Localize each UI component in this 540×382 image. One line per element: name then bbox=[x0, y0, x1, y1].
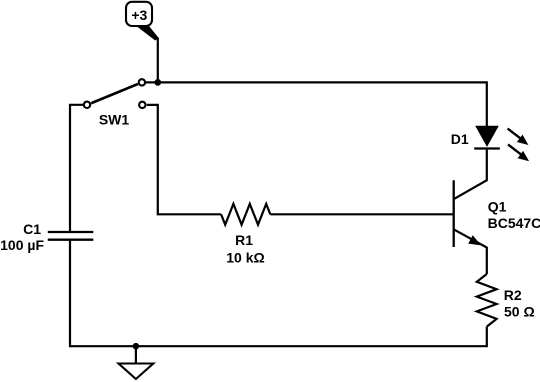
svg-text:C1: C1 bbox=[23, 221, 41, 237]
svg-text:Q1: Q1 bbox=[488, 198, 507, 214]
svg-text:10 kΩ: 10 kΩ bbox=[226, 249, 264, 265]
svg-text:100 µF: 100 µF bbox=[0, 237, 44, 253]
svg-text:D1: D1 bbox=[451, 131, 469, 147]
svg-text:50 Ω: 50 Ω bbox=[504, 304, 535, 320]
svg-text:+3: +3 bbox=[131, 7, 147, 23]
svg-text:R1: R1 bbox=[235, 232, 253, 248]
svg-text:R2: R2 bbox=[504, 287, 522, 303]
svg-text:SW1: SW1 bbox=[99, 112, 130, 128]
svg-text:BC547C: BC547C bbox=[488, 215, 540, 231]
